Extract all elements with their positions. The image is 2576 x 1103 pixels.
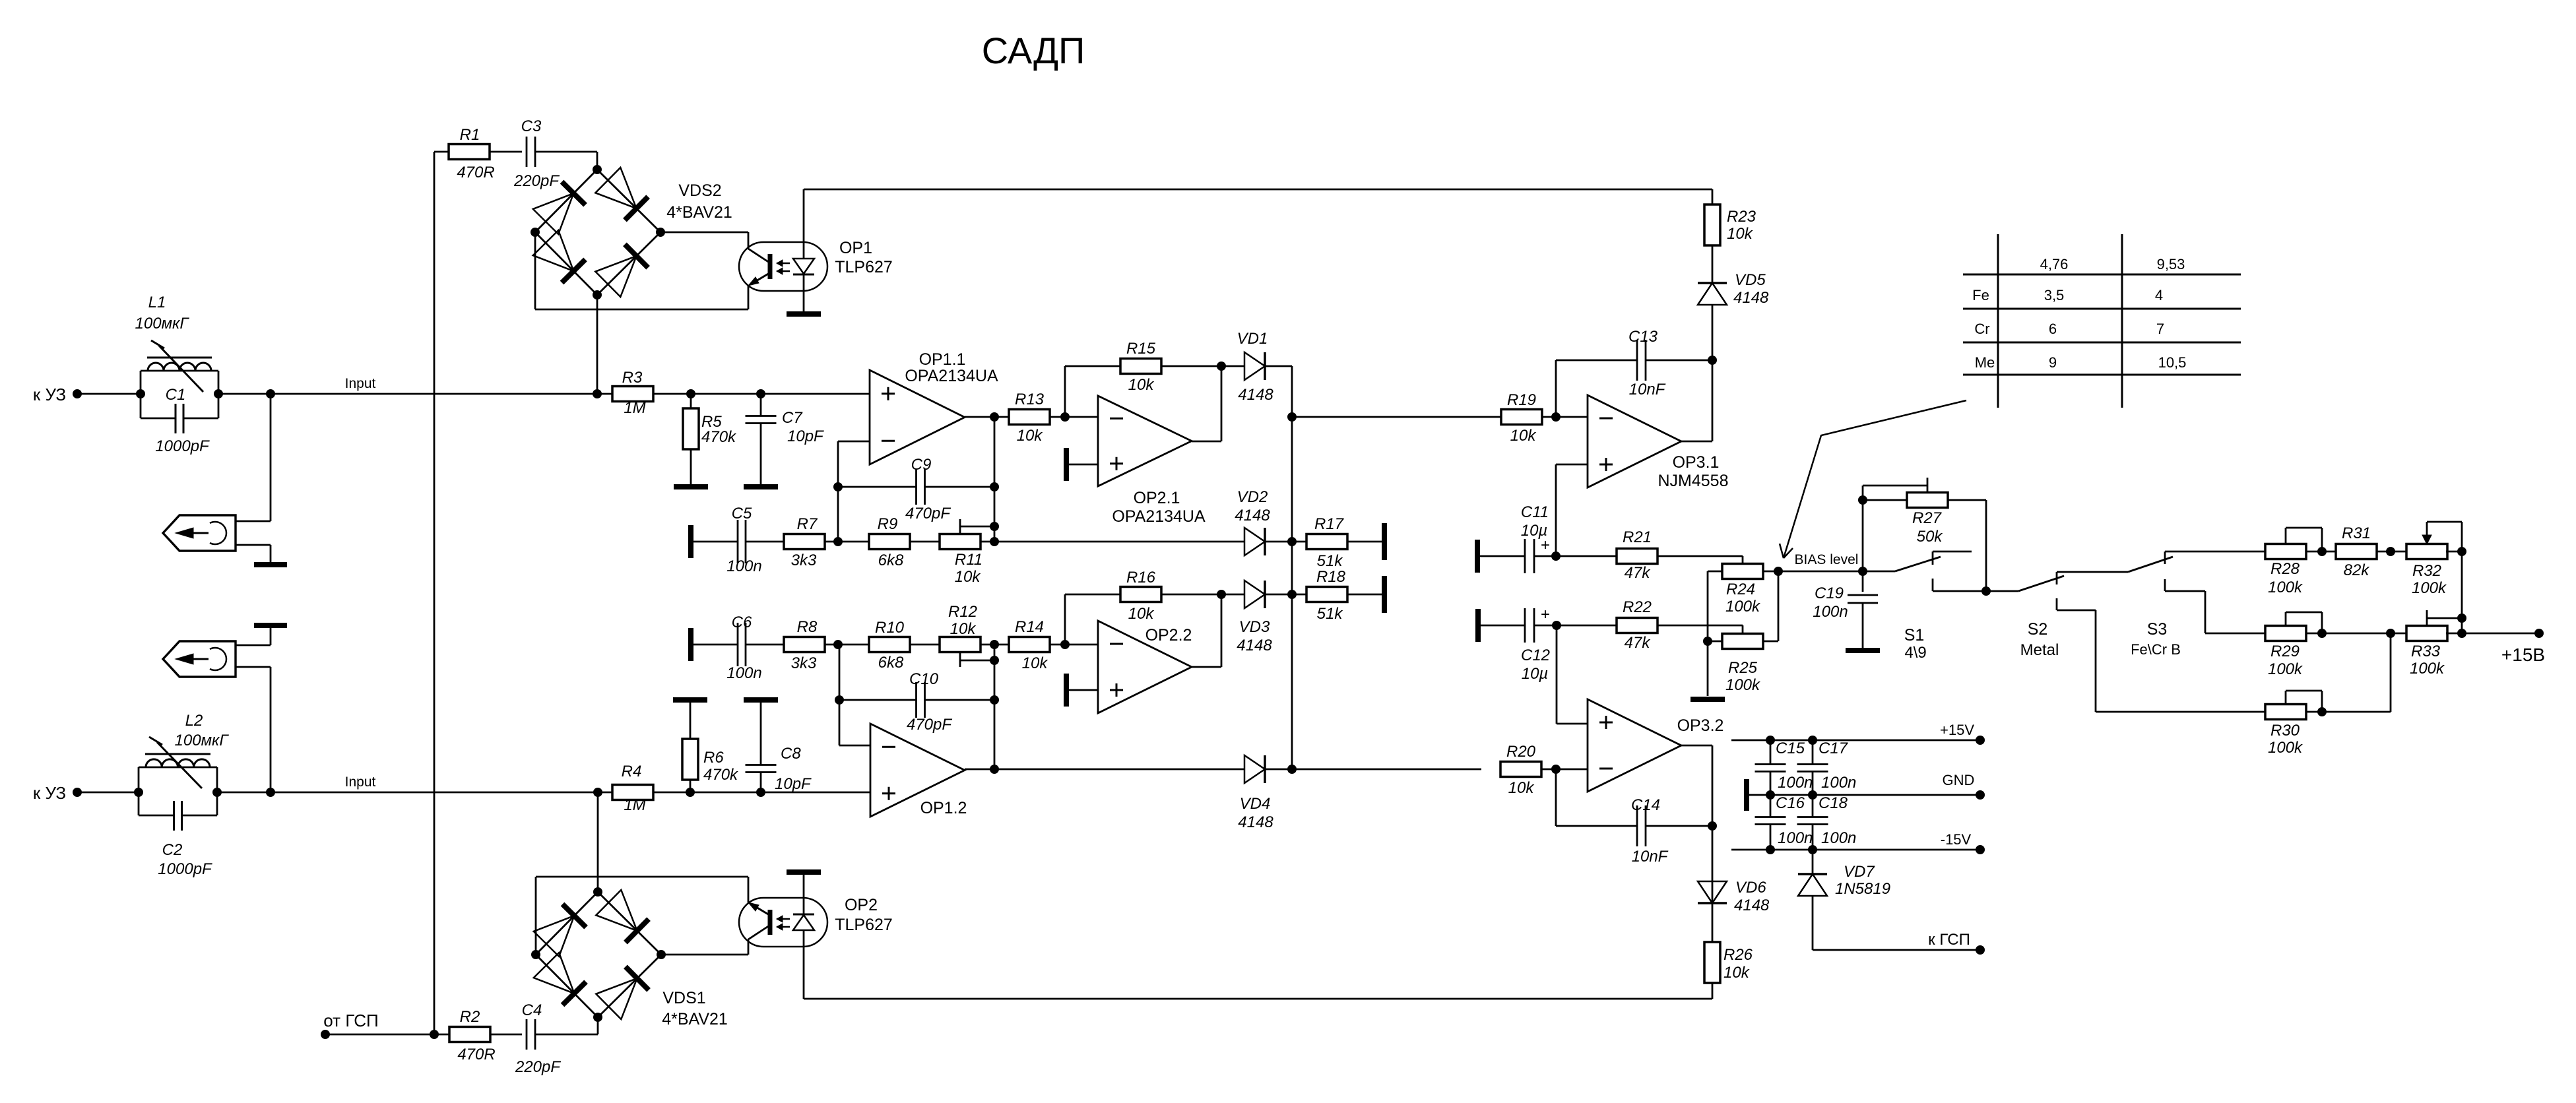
switch S2 Metal — [1986, 590, 2018, 592]
wire OP3.1 + input — [1556, 464, 1588, 466]
svg-text:VD5: VD5 — [1735, 271, 1766, 289]
switch S1 4/9 — [1863, 571, 1895, 573]
wire — [1712, 305, 1714, 360]
svg-text:R21: R21 — [1623, 528, 1652, 546]
capacitor C17 — [1808, 736, 1817, 745]
svg-text:R13: R13 — [1015, 391, 1045, 408]
svg-text:OP3.1: OP3.1 — [1673, 453, 1720, 472]
svg-text:9: 9 — [2049, 354, 2057, 371]
svg-text:6k8: 6k8 — [878, 551, 904, 569]
svg-text:R16: R16 — [1126, 569, 1156, 586]
svg-text:Metal: Metal — [2020, 641, 2059, 659]
svg-text:4148: 4148 — [1734, 897, 1770, 914]
svg-text:82k: 82k — [2344, 561, 2371, 579]
node C8 — [756, 788, 765, 797]
wire R4 node to bridge — [597, 792, 599, 892]
svg-text:C9: C9 — [911, 456, 932, 474]
svg-text:Input: Input — [345, 774, 376, 790]
svg-text:R25: R25 — [1728, 659, 1758, 677]
terminal к УЗ (bottom) — [73, 788, 82, 797]
svg-text:10µ: 10µ — [1522, 665, 1549, 683]
wire inverting feedback vertical — [839, 645, 841, 745]
trimmer R32 with arrow — [2406, 544, 2447, 559]
resistor R5 — [690, 394, 692, 410]
capacitor C9 — [838, 486, 916, 488]
node R5 — [686, 389, 695, 398]
svg-text:R2: R2 — [460, 1008, 480, 1026]
resistor R9 — [869, 534, 910, 550]
ground bar at + input — [1064, 448, 1069, 481]
svg-text:R4: R4 — [622, 763, 642, 780]
svg-text:R8: R8 — [797, 618, 818, 636]
trimmer R25 — [1722, 634, 1763, 649]
svg-text:+: + — [1541, 606, 1550, 623]
svg-text:к ГСП: к ГСП — [1928, 931, 1970, 949]
wire — [490, 151, 522, 153]
svg-text:от ГСП: от ГСП — [323, 1011, 378, 1030]
svg-text:VD1: VD1 — [1237, 330, 1268, 348]
svg-text:C15: C15 — [1776, 740, 1805, 757]
wire R24 left — [1708, 571, 1723, 573]
resistor R18 — [1306, 587, 1347, 602]
wire R24 right / BIAS node — [1763, 571, 1863, 573]
svg-text:R32: R32 — [2412, 562, 2441, 580]
terminal к УЗ (top) — [73, 389, 82, 398]
wire — [1541, 769, 1588, 771]
svg-text:470pF: 470pF — [905, 505, 951, 522]
svg-text:100n: 100n — [726, 664, 761, 682]
svg-text:10k: 10k — [1723, 964, 1751, 982]
wire bottom feedback rail — [804, 998, 1712, 1000]
wire — [535, 1034, 598, 1036]
wire bridge bottom vertex to input — [596, 295, 598, 394]
wire GND rail — [1744, 779, 1749, 811]
svg-text:C3: C3 — [521, 117, 542, 135]
wire — [2377, 551, 2408, 553]
ground — [744, 484, 778, 489]
svg-text:51k: 51k — [1317, 605, 1344, 623]
resistor R23 — [1712, 189, 1714, 205]
trimmer R24 — [1722, 564, 1763, 579]
wire — [2306, 711, 2391, 713]
diode bridge VDS1 4*BAV21 — [536, 892, 598, 955]
wire inverting input — [839, 745, 870, 747]
wire LED cathode — [803, 274, 805, 311]
svg-text:10nF: 10nF — [1632, 848, 1669, 866]
trimmer R12 — [940, 637, 981, 652]
capacitor C19 — [1862, 571, 1864, 592]
svg-text:10k: 10k — [1510, 427, 1537, 445]
diode VD3 4148 — [1244, 581, 1265, 608]
wire to R15 — [1064, 366, 1066, 417]
wire R25 left — [1708, 641, 1723, 643]
svg-text:C10: C10 — [909, 670, 939, 688]
svg-text:R17: R17 — [1314, 515, 1345, 533]
svg-text:C18: C18 — [1819, 794, 1848, 812]
head 2 — [163, 641, 236, 677]
svg-text:4148: 4148 — [1733, 289, 1769, 307]
optocoupler OP1 TLP627 — [739, 242, 827, 291]
svg-text:VD6: VD6 — [1735, 879, 1766, 897]
svg-text:S1: S1 — [1904, 626, 1925, 645]
wire — [1542, 416, 1588, 418]
svg-text:OP1.2: OP1.2 — [920, 799, 967, 817]
svg-text:470pF: 470pF — [907, 716, 952, 734]
svg-text:220pF: 220pF — [513, 172, 560, 190]
wire output — [1192, 666, 1221, 668]
svg-text:-15V: -15V — [1941, 831, 1972, 848]
wire Input 1 — [218, 393, 870, 395]
svg-text:47k: 47k — [1625, 564, 1652, 582]
svg-text:100мкГ: 100мкГ — [175, 732, 230, 749]
svg-text:R3: R3 — [622, 369, 643, 387]
arrow from table to BIAS node — [1784, 400, 1966, 558]
wire — [1265, 541, 1307, 543]
svg-text:10k: 10k — [1128, 605, 1155, 623]
capacitor C11 10u — [1477, 555, 1525, 557]
svg-text:6k8: 6k8 — [878, 654, 904, 672]
resistor R16 — [1120, 587, 1161, 602]
svg-text:100k: 100k — [2268, 579, 2303, 596]
svg-text:100k: 100k — [2268, 660, 2303, 678]
wire — [1347, 541, 1384, 543]
wire R16 left — [1064, 594, 1066, 645]
wire LED anode to bottom rail — [803, 930, 805, 999]
svg-text:+15B: +15B — [2501, 645, 2545, 665]
trimmer R30 — [2265, 705, 2306, 720]
svg-text:C19: C19 — [1815, 584, 1844, 602]
svg-text:OP3.2: OP3.2 — [1677, 716, 1724, 735]
svg-text:1M: 1M — [624, 796, 645, 814]
svg-text:470k: 470k — [701, 428, 737, 446]
diode VD6 4148 — [1698, 881, 1727, 903]
switch S3 Fe/Cr B — [2128, 557, 2173, 572]
wire R27 right — [1948, 499, 1986, 501]
svg-text:C8: C8 — [781, 745, 801, 763]
resistor R3 — [612, 387, 653, 402]
svg-text:Cr: Cr — [1974, 321, 1989, 337]
svg-text:220pF: 220pF — [515, 1058, 561, 1076]
diode bridge VDS2 4*BAV21 — [535, 170, 597, 232]
wire OP2.2 output vertical — [1221, 594, 1223, 667]
svg-text:10k: 10k — [950, 620, 977, 638]
svg-text:к УЗ: к УЗ — [33, 783, 66, 803]
svg-text:10k: 10k — [1727, 225, 1754, 243]
wire R19 line — [1292, 416, 1501, 418]
wire long vertical — [434, 152, 435, 1034]
svg-text:C16: C16 — [1776, 794, 1805, 812]
resistor R2 — [449, 1027, 490, 1042]
wire bridge bottom vertex — [597, 1018, 599, 1034]
wire to R24 wiper — [1658, 555, 1743, 557]
svg-text:470R: 470R — [457, 1046, 495, 1063]
svg-text:R31: R31 — [2342, 524, 2371, 542]
wire R1 lead — [434, 151, 449, 153]
wire output — [1681, 745, 1712, 747]
ground — [254, 623, 287, 628]
op-amp OP2.2 — [1098, 621, 1192, 713]
wire — [490, 1034, 522, 1036]
wire — [1050, 644, 1098, 646]
svg-text:VD2: VD2 — [1237, 488, 1268, 506]
node C19 — [1858, 567, 1867, 576]
capacitor C10 — [839, 699, 916, 701]
wire — [2306, 551, 2336, 553]
svg-text:OP2.1: OP2.1 — [1134, 489, 1180, 507]
wire — [825, 541, 870, 543]
node C7 — [756, 389, 765, 398]
wire inverting input — [838, 441, 870, 443]
svg-text:100k: 100k — [2268, 739, 2303, 757]
wire output — [965, 769, 1244, 771]
svg-text:R22: R22 — [1623, 598, 1652, 616]
resistor R15 — [1120, 359, 1161, 374]
wire right rail — [2446, 551, 2462, 553]
svg-text:100n: 100n — [726, 557, 761, 575]
op-amp OP3.1 NJM4558 — [1588, 395, 1681, 488]
svg-text:C7: C7 — [782, 409, 803, 427]
wire LED anode to top rail — [803, 189, 805, 259]
wire + input — [1557, 723, 1588, 725]
wire — [1161, 365, 1244, 367]
svg-text:10k: 10k — [955, 568, 982, 586]
svg-text:R1: R1 — [460, 126, 480, 144]
op-amp OP1.1 OPA2134UA — [870, 370, 965, 464]
svg-text:R9: R9 — [878, 515, 898, 533]
svg-text:10k: 10k — [1128, 376, 1155, 394]
wire — [981, 541, 1244, 543]
svg-text:6: 6 — [2049, 321, 2057, 337]
svg-text:51k: 51k — [1317, 552, 1344, 570]
svg-text:R20: R20 — [1506, 743, 1536, 761]
svg-text:R33: R33 — [2411, 643, 2441, 660]
ground — [674, 484, 708, 489]
resistor R13 — [1009, 410, 1050, 425]
terminal bar — [1382, 576, 1387, 613]
svg-text:R23: R23 — [1727, 208, 1756, 226]
svg-text:4148: 4148 — [1237, 637, 1272, 654]
trimmer R28 — [2265, 544, 2306, 559]
input bar — [1475, 540, 1480, 573]
capacitor C13 feedback — [1555, 360, 1557, 417]
diode VD5 4148 — [1698, 283, 1727, 305]
capacitor C6 — [691, 644, 738, 646]
trimmer R33 — [2406, 626, 2447, 641]
wire to R25 wiper — [1658, 625, 1743, 627]
resistor R4 — [612, 785, 653, 800]
svg-text:1M: 1M — [624, 399, 645, 417]
svg-text:C6: C6 — [732, 614, 752, 631]
trimmer R11 — [940, 534, 981, 550]
wire — [325, 1034, 450, 1036]
wire — [2306, 633, 2408, 635]
svg-text:10k: 10k — [1022, 654, 1049, 672]
svg-text:TLP627: TLP627 — [835, 916, 893, 934]
wire bridge right to opto — [660, 232, 748, 234]
wire diode summing vertical — [1291, 366, 1293, 769]
svg-text:R29: R29 — [2270, 643, 2300, 660]
svg-text:100k: 100k — [1725, 598, 1761, 615]
wire — [77, 393, 141, 395]
svg-text:L2: L2 — [185, 712, 203, 730]
op-amp OP2.1 OPA2134UA — [1098, 396, 1192, 486]
svg-text:VD7: VD7 — [1844, 863, 1875, 881]
svg-text:OP2: OP2 — [845, 896, 878, 914]
wire bridge left frame — [534, 232, 536, 309]
svg-text:47k: 47k — [1625, 634, 1652, 652]
svg-text:Fe: Fe — [1972, 287, 1989, 303]
capacitor C5 — [691, 541, 738, 543]
resistor R21 — [1617, 549, 1658, 564]
svg-text:VD4: VD4 — [1240, 795, 1271, 813]
terminal bar — [787, 869, 821, 875]
svg-text:VDS1: VDS1 — [662, 989, 705, 1007]
svg-text:4: 4 — [2155, 287, 2163, 303]
svg-text:Fe\Cr B: Fe\Cr B — [2131, 641, 2181, 658]
svg-text:C13: C13 — [1628, 328, 1658, 346]
svg-text:R19: R19 — [1507, 391, 1536, 409]
resistor R7 — [784, 534, 825, 550]
svg-text:R12: R12 — [948, 603, 977, 621]
svg-text:4*BAV21: 4*BAV21 — [662, 1010, 728, 1028]
tank L2/C2 — [138, 767, 140, 815]
wire S3 to R29 — [2205, 633, 2266, 635]
svg-text:100n: 100n — [1813, 603, 1848, 621]
resistor R31 — [2336, 544, 2377, 559]
svg-text:OPA2134UA: OPA2134UA — [905, 367, 998, 385]
svg-text:R27: R27 — [1912, 509, 1943, 527]
input bar — [688, 525, 693, 558]
svg-text:470R: 470R — [457, 164, 494, 181]
svg-text:1000pF: 1000pF — [158, 860, 212, 878]
capacitor C7 — [760, 394, 762, 416]
svg-text:C4: C4 — [522, 1001, 542, 1019]
svg-text:4148: 4148 — [1238, 813, 1273, 831]
wire output to VD1 node — [1192, 441, 1221, 443]
svg-text:C14: C14 — [1631, 796, 1660, 814]
svg-text:1N5819: 1N5819 — [1835, 880, 1890, 898]
svg-text:1000pF: 1000pF — [155, 437, 210, 455]
capacitor C16 — [1766, 790, 1775, 800]
svg-text:100k: 100k — [1725, 676, 1761, 694]
svg-text:10,5: 10,5 — [2158, 354, 2187, 371]
capacitor C3 — [526, 137, 528, 167]
svg-text:C2: C2 — [162, 841, 183, 859]
diode VD2 4148 — [1244, 528, 1265, 555]
svg-text:3k3: 3k3 — [791, 551, 817, 569]
wire к ГСП — [1813, 949, 1980, 951]
wire — [1347, 594, 1384, 596]
svg-text:R28: R28 — [2270, 560, 2300, 578]
svg-text:10pF: 10pF — [787, 427, 824, 445]
svg-text:OPA2134UA: OPA2134UA — [1112, 507, 1206, 526]
svg-text:C11: C11 — [1521, 503, 1549, 521]
wire — [910, 644, 940, 646]
ground bar at + input — [1064, 674, 1069, 707]
svg-text:4*BAV21: 4*BAV21 — [666, 203, 732, 222]
resistor R1 — [449, 144, 490, 160]
svg-text:C12: C12 — [1521, 646, 1550, 664]
svg-text:C17: C17 — [1819, 740, 1849, 757]
svg-text:4\9: 4\9 — [1904, 644, 1926, 662]
svg-text:R18: R18 — [1316, 568, 1346, 586]
svg-text:L1: L1 — [148, 294, 166, 311]
svg-text:OP1.1: OP1.1 — [919, 350, 966, 369]
wire — [535, 151, 597, 153]
capacitor C14 feedback — [1555, 769, 1557, 826]
svg-text:7: 7 — [2156, 321, 2164, 337]
node R4 — [593, 788, 602, 797]
svg-text:100n: 100n — [1821, 829, 1856, 847]
wire — [981, 644, 1011, 646]
capacitor C12 10u — [1478, 625, 1525, 627]
resistor R17 — [1306, 534, 1347, 550]
svg-text:R7: R7 — [797, 515, 818, 533]
input bar — [688, 628, 693, 661]
svg-text:100k: 100k — [2412, 579, 2447, 597]
wire Input 2 — [217, 792, 870, 794]
resistor R14 — [1009, 637, 1050, 652]
svg-text:BIAS level: BIAS level — [1795, 552, 1859, 567]
wire — [1265, 365, 1292, 367]
op-amp OP1.2 — [870, 724, 965, 817]
wire R25 right up to BIAS — [1763, 641, 1778, 643]
svg-text:R10: R10 — [875, 619, 905, 637]
svg-text:OP1: OP1 — [839, 239, 872, 257]
svg-text:3k3: 3k3 — [791, 654, 817, 672]
wire S2 to R30 — [2096, 711, 2266, 713]
ground — [787, 311, 821, 317]
svg-text:+15V: +15V — [1940, 722, 1974, 738]
svg-text:4148: 4148 — [1235, 507, 1270, 524]
svg-text:3,5: 3,5 — [2044, 287, 2065, 303]
wire top feedback rail — [804, 189, 1712, 191]
wire bridge right to opto — [661, 954, 748, 956]
diode VD1 4148 — [1244, 352, 1265, 380]
wire — [910, 541, 940, 543]
svg-text:100мкГ: 100мкГ — [135, 315, 190, 332]
resistor R10 — [869, 637, 910, 652]
svg-text:VDS2: VDS2 — [678, 181, 721, 200]
svg-text:10nF: 10nF — [1629, 381, 1666, 398]
svg-text:R14: R14 — [1015, 618, 1044, 636]
capacitor C18 — [1808, 790, 1817, 800]
table grid — [1963, 274, 2241, 276]
resistor R8 — [784, 637, 825, 652]
capacitor C8 — [760, 772, 762, 792]
wire — [77, 792, 139, 794]
svg-text:TLP627: TLP627 — [835, 258, 893, 276]
svg-text:VD3: VD3 — [1239, 618, 1270, 636]
capacitor C15 — [1766, 736, 1775, 745]
resistor R20 — [1500, 762, 1541, 777]
svg-text:R6: R6 — [703, 749, 724, 767]
svg-text:10k: 10k — [1017, 427, 1044, 445]
head 1 (record/play head) — [163, 515, 236, 551]
svg-text:САДП: САДП — [982, 30, 1085, 71]
resistor R26 — [1704, 942, 1720, 983]
op-amp OP3.2 — [1588, 699, 1681, 792]
svg-text:100n: 100n — [1821, 774, 1856, 792]
capacitor C4 — [526, 1019, 528, 1050]
svg-text:S3: S3 — [2147, 620, 2168, 639]
svg-text:Me: Me — [1975, 354, 1995, 371]
wire LED cathode to bar — [803, 875, 805, 914]
svg-text:S2: S2 — [2028, 620, 2048, 639]
resistor R19 — [1501, 410, 1542, 425]
svg-text:R26: R26 — [1723, 946, 1753, 964]
wire output vertical — [994, 417, 996, 542]
